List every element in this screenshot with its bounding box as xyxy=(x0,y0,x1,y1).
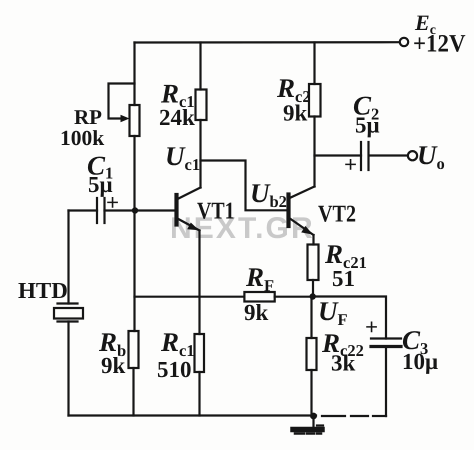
svg-text:510: 510 xyxy=(157,357,192,382)
wire bottom rail xyxy=(69,414,317,416)
transistor VT2 xyxy=(286,195,290,227)
svg-text:5μ: 5μ xyxy=(355,113,380,138)
svg-text:Uo: Uo xyxy=(417,140,445,173)
svg-text:100k: 100k xyxy=(60,126,104,150)
resistor Rc22 xyxy=(307,338,317,370)
wire UF to Rc22 xyxy=(310,297,312,339)
svg-text:51: 51 xyxy=(332,266,355,291)
svg-text:RF: RF xyxy=(245,262,274,295)
svg-text:10μ: 10μ xyxy=(402,349,438,374)
svg-text:Uc1: Uc1 xyxy=(165,141,200,174)
wire Rc1 24k to VT1 collector xyxy=(199,120,201,188)
capacitor C2 xyxy=(360,142,362,170)
svg-text:+: + xyxy=(365,315,378,340)
svg-text:Ub2: Ub2 xyxy=(250,178,287,211)
svg-text:9k: 9k xyxy=(101,353,126,378)
resistor Rc21 xyxy=(308,245,319,281)
svg-text:+12V: +12V xyxy=(413,31,466,58)
transistor VT1 xyxy=(174,195,178,225)
wire RF to UF node xyxy=(275,296,313,298)
node UF xyxy=(310,293,316,299)
svg-text:3k: 3k xyxy=(331,351,356,376)
wire UF to C3 xyxy=(313,297,386,339)
svg-text:UF: UF xyxy=(318,296,348,329)
potentiometer RP xyxy=(130,105,140,136)
wire C3 to bottom rail xyxy=(385,347,387,417)
wire Rc1 510 to bottom rail xyxy=(198,372,200,416)
capacitor C3 xyxy=(371,337,401,339)
svg-text:HTD: HTD xyxy=(18,278,68,303)
terminal Ec xyxy=(400,38,408,46)
resistor Rc2 xyxy=(309,84,321,117)
node bottom junction xyxy=(310,413,317,420)
wire top supply rail xyxy=(135,41,400,43)
resistor RF xyxy=(244,292,274,302)
wire VT1 emitter down to Rc1 510 xyxy=(198,231,200,335)
svg-text:VT1: VT1 xyxy=(197,199,235,225)
svg-text:9k: 9k xyxy=(244,300,269,325)
wire VT2 collector up xyxy=(313,117,315,187)
wire Rc22 to bottom rail xyxy=(310,370,312,416)
svg-text:24k: 24k xyxy=(159,105,195,130)
wire RP branch top xyxy=(133,43,135,106)
wire Uc1 link to VT2 base xyxy=(201,161,289,211)
svg-text:+: + xyxy=(344,152,357,177)
wire rail to Rc2 xyxy=(313,43,315,85)
resistor Rb xyxy=(129,331,139,368)
capacitor C1 xyxy=(96,198,98,223)
resistor Rc1 (510) xyxy=(195,334,205,372)
wire C2 tap xyxy=(315,154,362,156)
wire Rb to bottom rail xyxy=(132,368,134,416)
resistor Rc1 (24k) xyxy=(196,90,207,121)
wire HTD to bottom rail xyxy=(67,322,69,416)
wire feedback to RF xyxy=(135,296,245,298)
wire C1 to VT1 base xyxy=(105,209,177,211)
wire left column down to HTD xyxy=(67,211,69,304)
wire input node down to Rb xyxy=(133,211,135,332)
wire C2 to Uo terminal xyxy=(369,154,408,156)
terminal Uo xyxy=(408,151,417,160)
ground xyxy=(312,416,314,427)
wire VT2 emitter to Rc21 xyxy=(312,235,314,245)
wire input left segment xyxy=(69,209,98,211)
wire Rc21 to UF node xyxy=(312,280,314,297)
svg-text:Rc1: Rc1 xyxy=(160,327,195,360)
svg-text:VT2: VT2 xyxy=(318,202,356,228)
svg-text:9k: 9k xyxy=(283,101,308,126)
wire RP to input node xyxy=(133,136,135,211)
wire rail to Rc1 24k xyxy=(199,43,201,90)
node input junction xyxy=(132,207,138,213)
